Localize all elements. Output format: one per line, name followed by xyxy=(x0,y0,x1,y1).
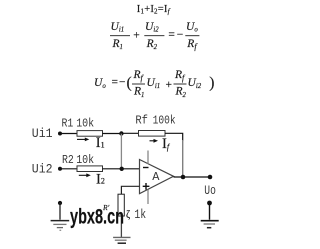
svg-text:Uo: Uo xyxy=(204,184,216,198)
node ground reference dot under Uo xyxy=(207,201,212,206)
node summing junction bottom (R2/inverting input) xyxy=(120,167,124,171)
wire R' to ground xyxy=(120,216,122,237)
svg-text:A: A xyxy=(152,170,160,184)
wire non-inverting input to R' xyxy=(121,186,139,194)
wire summing node to Rf xyxy=(121,132,138,134)
svg-text:100k: 100k xyxy=(153,115,176,128)
equation 2: Ui1/R1 + Ui2/R2 = -Uo/Rf xyxy=(110,21,199,51)
svg-text:10k: 10k xyxy=(76,117,94,130)
op-amp positive supply stub xyxy=(147,151,149,165)
ground symbol right xyxy=(201,203,219,228)
equation 1: I1+I2=If xyxy=(137,4,171,16)
ground under R' xyxy=(113,237,130,243)
svg-text:Rf: Rf xyxy=(135,115,148,128)
svg-text:1k: 1k xyxy=(134,208,146,222)
svg-text:Ui1: Ui1 xyxy=(32,127,53,141)
node feedback/output junction xyxy=(181,175,186,180)
label R2 10k xyxy=(62,154,94,167)
resistor R2 xyxy=(77,166,103,172)
label R1 10k xyxy=(62,117,95,130)
node summing junction top (R1/Rf) xyxy=(119,131,123,135)
svg-text:10k: 10k xyxy=(76,154,94,167)
wire Rf to feedback corner xyxy=(165,133,183,141)
svg-text:=: = xyxy=(112,77,119,89)
wire R2 to summing node xyxy=(103,168,122,170)
node Ui2 input dot xyxy=(58,167,62,171)
op-amp inverting input marker xyxy=(143,167,149,169)
wire summing node to inverting input xyxy=(121,168,139,170)
wire Ui2 to R2 xyxy=(60,168,77,170)
op-amp non-inverting input marker xyxy=(143,183,150,190)
svg-text:+: + xyxy=(133,29,140,41)
current arrow I1 xyxy=(77,135,105,151)
label Ui2 xyxy=(32,163,53,177)
node output terminal dot xyxy=(208,175,213,180)
node ground reference dot under Ui2 xyxy=(58,201,62,205)
node Ui1 input dot xyxy=(58,132,62,136)
wire op-amp output xyxy=(174,176,211,178)
current arrow If xyxy=(150,136,171,152)
current arrow I2 xyxy=(79,171,105,187)
resistor Rf xyxy=(139,131,166,137)
svg-text:R2: R2 xyxy=(62,154,74,167)
svg-text:−: − xyxy=(119,77,126,89)
label R' xyxy=(102,203,110,212)
svg-text:Ui2: Ui2 xyxy=(32,163,53,177)
svg-text:=: = xyxy=(168,29,175,41)
svg-text:): ) xyxy=(209,75,214,92)
wire Ui1 to R1 xyxy=(60,133,77,135)
label Ui1 xyxy=(32,127,53,141)
svg-text:ζ: ζ xyxy=(126,210,130,221)
label 1k xyxy=(126,208,146,222)
wire feedback vertical down to output xyxy=(182,140,184,177)
wire summing node vertical xyxy=(120,134,122,169)
wire R1 to summing node xyxy=(103,133,122,135)
ground symbol left xyxy=(51,203,70,230)
resistor R1 xyxy=(77,131,103,137)
label Uo xyxy=(204,184,216,198)
label Rf 100k xyxy=(135,115,175,128)
op-amp negative supply stub xyxy=(147,190,149,205)
watermark ybx8.cn xyxy=(70,205,124,228)
svg-text:−: − xyxy=(177,29,184,41)
svg-text:R1: R1 xyxy=(62,117,74,130)
svg-text:ybx8.cn: ybx8.cn xyxy=(70,205,124,228)
svg-text:+: + xyxy=(166,79,173,91)
equation 3: Uo = -(Rf/R1 Ui1 + Rf/R2 Ui2) xyxy=(94,69,214,99)
resistor R' 1k vertical xyxy=(118,194,124,216)
op-amp A triangle xyxy=(140,160,174,194)
svg-text:(: ( xyxy=(127,75,132,92)
